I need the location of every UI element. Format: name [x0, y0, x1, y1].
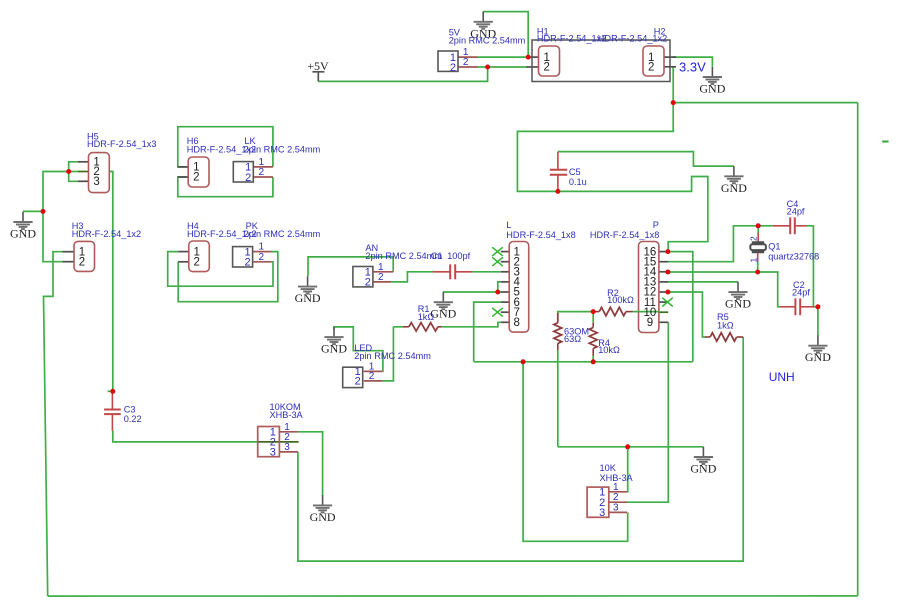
- capacitor C1: [450, 264, 455, 279]
- wire 10KOM pin1 to GND: [298, 432, 323, 496]
- connector P: [638, 242, 659, 333]
- svg-text:2pin RMC 2.54mm: 2pin RMC 2.54mm: [244, 229, 321, 239]
- pin P 10 overlapped: [658, 311, 668, 313]
- connector H6: [188, 157, 209, 187]
- wire H5 junction left to left gnd rail: [43, 172, 69, 262]
- svg-text:GND: GND: [725, 297, 751, 311]
- wire H2 pin2 down to 3.3V node: [672, 67, 674, 103]
- connector H4: [189, 241, 210, 272]
- lead R2 right: [626, 311, 633, 313]
- svg-text:3: 3: [613, 502, 619, 513]
- lead C3 top: [111, 391, 113, 409]
- svg-text:10kΩ: 10kΩ: [598, 345, 620, 355]
- svg-text:2: 2: [194, 257, 200, 269]
- wire quartz top to junction: [757, 226, 759, 234]
- connector AN: [353, 267, 373, 289]
- wire 63OM top to R2 node: [558, 312, 593, 314]
- connector L: [509, 242, 529, 333]
- ground AN: [295, 276, 321, 305]
- wire P pin14 to C2 left: [668, 272, 780, 307]
- svg-text:24pf: 24pf: [792, 288, 810, 298]
- svg-text:UNH: UNH: [769, 370, 795, 384]
- label C4: [787, 199, 805, 217]
- wire C1 right to L pin3: [472, 271, 500, 273]
- wire R5 right down to 10KOM pin3 rail: [298, 337, 743, 561]
- wire H4 pin2 to PK pin1: [178, 252, 278, 302]
- wire H6 LK loop top: [178, 127, 273, 167]
- resistor R2: [599, 307, 626, 315]
- resistor 63OM: [554, 323, 562, 344]
- pins H6: [178, 167, 188, 177]
- svg-text:L: L: [506, 220, 511, 230]
- junction left gnd: [41, 209, 46, 214]
- pins H5: [78, 162, 89, 182]
- module outline H1 H2: [532, 40, 670, 82]
- ground P pin13: [725, 282, 751, 311]
- lead R1 right: [438, 326, 442, 328]
- svg-text:63Ω: 63Ω: [564, 334, 581, 344]
- wire P pin15 to quartz top: [668, 226, 773, 262]
- label R1: [418, 304, 435, 322]
- svg-text:1kΩ: 1kΩ: [717, 321, 734, 331]
- ground left: [10, 212, 36, 241]
- svg-text:3.3V: 3.3V: [679, 60, 706, 75]
- wire C3 bottom to 10KOM pin2: [113, 431, 258, 442]
- svg-text:2: 2: [355, 376, 361, 388]
- label C2: [792, 280, 810, 297]
- connector 5V: [438, 51, 458, 74]
- label H2: [598, 27, 667, 44]
- wire right edge rail down: [857, 103, 859, 596]
- label P: [590, 220, 659, 240]
- junction rail left: [521, 359, 526, 364]
- label LK: [244, 136, 321, 154]
- pin H5 2 overlapped: [78, 171, 89, 173]
- lead R2 left: [593, 311, 599, 313]
- wire H4 pin1 to PK pin2: [168, 252, 273, 287]
- pin numbers LK: [259, 157, 265, 178]
- svg-text:2: 2: [378, 272, 384, 283]
- connector 10K: [587, 487, 609, 520]
- ground LED: [321, 327, 347, 356]
- svg-text:9: 9: [647, 317, 653, 329]
- junction XHB gnd: [625, 444, 630, 449]
- svg-text:2: 2: [259, 167, 265, 178]
- ground L pin5: [430, 292, 456, 321]
- svg-text:GND: GND: [321, 342, 347, 356]
- lead C3 bottom: [111, 414, 113, 431]
- lead C1 right: [455, 271, 472, 273]
- svg-text:24pf: 24pf: [787, 207, 805, 217]
- pin numbers PK: [259, 242, 265, 263]
- svg-text:2pin RMC 2.54mm: 2pin RMC 2.54mm: [244, 144, 321, 154]
- label 3.3V: [679, 60, 706, 75]
- svg-text:GND: GND: [699, 82, 725, 96]
- resistor R5: [710, 333, 737, 341]
- svg-text:2: 2: [543, 62, 549, 74]
- pins L: [501, 252, 509, 323]
- wire L pin6 to rail: [474, 302, 501, 362]
- svg-text:3: 3: [284, 442, 290, 453]
- ground C5: [721, 166, 747, 195]
- svg-text:XHB-3A: XHB-3A: [270, 410, 304, 420]
- label 10KOM: [270, 402, 304, 420]
- junction rail R4: [591, 359, 596, 364]
- label 10K: [600, 463, 634, 483]
- ground XHB 10K: [690, 447, 716, 476]
- lead R4 top: [592, 323, 594, 328]
- junction R2 left: [591, 309, 596, 314]
- pin numbers 10K: [613, 482, 619, 514]
- pins XHB 10K: [609, 492, 627, 513]
- svg-text:GND: GND: [805, 350, 831, 364]
- pin 10KOM 2 overlapped: [258, 441, 299, 443]
- capacitor C2: [795, 298, 800, 315]
- lead C1 left: [433, 271, 450, 273]
- lead C5 top: [557, 152, 559, 170]
- lead R5 right: [737, 336, 744, 338]
- wire AN pin1 to GND: [308, 257, 393, 277]
- label C3: [124, 404, 142, 424]
- wire R4 top from R2 node: [592, 312, 594, 323]
- pin numbers 5V: [463, 47, 469, 68]
- svg-text:2pin RMC 2.54mm: 2pin RMC 2.54mm: [449, 36, 526, 46]
- lead R5 left: [705, 336, 710, 338]
- svg-text:HDR-F-2.54_1x2: HDR-F-2.54_1x2: [72, 229, 141, 239]
- lead C2 left: [780, 306, 796, 308]
- svg-text:+5V: +5V: [307, 59, 329, 73]
- label LED: [354, 343, 431, 361]
- svg-text:3: 3: [93, 176, 99, 188]
- label 63OM: [564, 326, 589, 344]
- svg-text:3: 3: [270, 447, 276, 459]
- svg-text:C1: C1: [431, 251, 443, 261]
- label H3: [72, 221, 141, 239]
- pins H4: [178, 252, 189, 262]
- connector LED: [343, 366, 363, 388]
- svg-text:GND: GND: [10, 227, 36, 241]
- pin numbers 10KOM: [284, 422, 290, 453]
- pins P: [658, 252, 668, 323]
- svg-text:HDR-F-2.54_1x2: HDR-F-2.54_1x2: [598, 34, 667, 44]
- label L: [506, 220, 575, 240]
- svg-text:2: 2: [365, 277, 371, 289]
- wire AN pin2 to C1: [391, 272, 433, 282]
- wire P pin16 across to 3.3V drop: [668, 252, 693, 362]
- svg-text:8: 8: [513, 317, 519, 329]
- label PK: [244, 221, 321, 239]
- no-connect L pin2: [492, 257, 503, 266]
- ground C2: [805, 336, 831, 365]
- pins AN: [373, 272, 393, 282]
- pin numbers LED: [369, 361, 375, 382]
- wire C5 top to GND: [558, 152, 734, 167]
- connector H3: [74, 241, 95, 271]
- pins 5V connector: [458, 57, 478, 67]
- svg-text:GND: GND: [295, 291, 321, 305]
- wire rail drop to XHB 10K pin3: [523, 362, 628, 542]
- lead C5 bottom: [557, 175, 559, 192]
- wire R4 bottom to rail: [592, 356, 594, 362]
- lead C4 right: [795, 225, 807, 227]
- junction quartz top: [756, 223, 761, 228]
- junction P pin12: [665, 290, 670, 295]
- label Q1: [768, 242, 819, 262]
- wire quartz bottom to P pin14 net: [757, 262, 759, 272]
- wire left rail up to H3 pin1: [44, 252, 63, 596]
- svg-text:Q1: Q1: [768, 242, 780, 252]
- svg-text:HDR-F-2.54_1x3: HDR-F-2.54_1x3: [87, 139, 156, 149]
- svg-text:0.22: 0.22: [124, 414, 142, 424]
- junction C2 right: [815, 304, 820, 309]
- svg-text:3: 3: [599, 507, 605, 519]
- wire LED pin2 riser: [382, 327, 393, 381]
- pins H2: [664, 57, 677, 67]
- junction C3 top: [110, 389, 115, 394]
- ground H2: [699, 67, 725, 96]
- capacitor C4: [790, 217, 795, 234]
- wire 5V pin2 to H1 pin2: [478, 66, 528, 68]
- svg-text:2: 2: [369, 371, 375, 382]
- pins H3: [63, 252, 75, 262]
- label 5V connector: [449, 28, 526, 46]
- junction 5V pin2: [485, 65, 490, 70]
- pins 10KOM: [279, 432, 298, 452]
- wire 3.3V node down to C5 loop: [517, 103, 707, 252]
- label C1: [431, 251, 471, 261]
- pins LED: [364, 371, 383, 381]
- lead R1 left: [403, 326, 409, 328]
- svg-text:HDR-F-2.54_1x8: HDR-F-2.54_1x8: [590, 230, 659, 240]
- label H1: [537, 27, 606, 44]
- connector LK: [233, 162, 253, 184]
- junction quartz bottom: [755, 270, 760, 275]
- junction P pin14: [665, 270, 670, 275]
- wire P pin13 to GND: [668, 281, 738, 283]
- lead 63OM top: [557, 313, 559, 323]
- svg-text:GND: GND: [721, 181, 747, 195]
- svg-text:2: 2: [193, 172, 199, 184]
- connector H2: [643, 46, 664, 76]
- no-connect L pin7: [492, 308, 503, 317]
- connector PK: [233, 246, 253, 268]
- wire dash right edge: [882, 140, 888, 142]
- label R4: [598, 338, 620, 355]
- svg-text:HDR-F-2.54_1x2: HDR-F-2.54_1x2: [537, 34, 606, 44]
- wire GND rail above XHB 10K: [558, 446, 704, 448]
- resistor R4: [589, 328, 597, 349]
- wire 3.3V horizontal rail mid: [474, 361, 693, 363]
- label C5: [569, 167, 587, 187]
- svg-text:2: 2: [79, 256, 85, 268]
- wire C2 right to GND: [813, 307, 818, 336]
- pins LK: [253, 167, 273, 177]
- svg-text:2: 2: [245, 172, 251, 184]
- lead quartz top: [757, 233, 759, 242]
- svg-text:2: 2: [648, 62, 654, 74]
- label AN: [365, 243, 442, 261]
- wire H5 GND net: [69, 162, 78, 182]
- resistor R1: [409, 323, 438, 331]
- label R5: [717, 312, 734, 330]
- wire R2 right to P pin10: [633, 311, 639, 313]
- lead quartz bottom: [757, 253, 759, 262]
- label H5: [87, 132, 156, 149]
- label H4: [187, 221, 256, 239]
- ground top: [470, 12, 496, 41]
- wire C3 nub: [108, 390, 113, 392]
- wire H2 pin1 to GND right: [673, 57, 713, 67]
- svg-text:2: 2: [244, 257, 250, 269]
- svg-text:100kΩ: 100kΩ: [607, 295, 634, 305]
- svg-text:C5: C5: [569, 167, 581, 177]
- power +5V symbol: [307, 59, 329, 81]
- wire R1 right to L pin8: [442, 322, 501, 327]
- label UNH: [769, 370, 795, 384]
- junction L pin5: [495, 290, 500, 295]
- connector 10KOM: [258, 427, 280, 459]
- label H6: [187, 136, 256, 154]
- svg-text:2: 2: [749, 236, 759, 241]
- pins PK: [253, 252, 271, 262]
- connector H1: [539, 46, 560, 76]
- junction H1 pin1: [526, 55, 531, 60]
- crystal Q1: [750, 241, 766, 253]
- wire H5 pin2 through to C3: [69, 171, 78, 173]
- wire bottom rail: [48, 595, 858, 597]
- wire 3.3V node to right edge rail: [673, 102, 858, 104]
- pins H1: [526, 57, 538, 67]
- capacitor C3: [104, 410, 121, 415]
- svg-text:C3: C3: [124, 404, 136, 414]
- svg-text:GND: GND: [310, 510, 336, 524]
- label quartz pin 2: [749, 236, 759, 241]
- wire C4 right down to C2 right: [807, 226, 814, 307]
- svg-text:1kΩ: 1kΩ: [418, 312, 435, 322]
- wire H6 LK loop bottom: [178, 177, 273, 197]
- wire 63OM bottom down across rail: [557, 350, 559, 446]
- no-connect L pin1: [492, 247, 503, 256]
- junction C5 bottom: [555, 189, 560, 194]
- svg-text:HDR-F-2.54_1x8: HDR-F-2.54_1x8: [506, 230, 575, 240]
- connector H5: [89, 153, 110, 193]
- junction P pin16: [665, 249, 670, 254]
- svg-text:1: 1: [749, 258, 759, 263]
- svg-text:1: 1: [613, 482, 619, 493]
- lead C4 left: [773, 225, 790, 227]
- label R2: [607, 288, 634, 305]
- svg-text:10K: 10K: [600, 463, 617, 473]
- svg-text:quartz32768: quartz32768: [768, 252, 819, 262]
- svg-text:GND: GND: [690, 462, 716, 476]
- svg-text:2: 2: [463, 57, 469, 68]
- lead R4 bottom: [592, 349, 594, 356]
- junction 3.3V node: [671, 100, 676, 105]
- wire XHB 10K pin1 up to GND rail: [626, 447, 629, 492]
- svg-text:2pin RMC 2.54mm: 2pin RMC 2.54mm: [354, 351, 431, 361]
- wire gnd tap left: [23, 210, 43, 212]
- wire LED pin1 to GND: [334, 327, 383, 372]
- svg-text:2: 2: [259, 252, 265, 263]
- wire H1 pin1 node up to top GND: [483, 12, 528, 58]
- wire P pin9 down to XHB 10K pin2: [627, 322, 668, 502]
- wire +5V rail to 5V connector pin2: [318, 67, 487, 81]
- lead 63OM bottom: [557, 343, 559, 350]
- ground 10KOM: [310, 495, 336, 524]
- svg-text:100pf: 100pf: [447, 251, 470, 261]
- svg-text:2: 2: [450, 62, 456, 74]
- wire P pin12 to R5: [668, 292, 705, 337]
- junction H5 pin2: [66, 169, 71, 174]
- wire L pin4 pin5 gnd: [498, 282, 501, 292]
- pin numbers AN: [378, 262, 384, 283]
- wire R1 left to LED pin2 riser: [393, 326, 403, 328]
- label quartz pin 1: [749, 258, 759, 263]
- svg-text:P: P: [653, 220, 659, 230]
- capacitor C5: [550, 170, 567, 175]
- wire 5V pin1 to H1 pin1: [478, 56, 529, 58]
- svg-text:0.1u: 0.1u: [569, 177, 587, 187]
- lead C2 right: [800, 306, 814, 308]
- no-connect P pin11: [662, 298, 673, 307]
